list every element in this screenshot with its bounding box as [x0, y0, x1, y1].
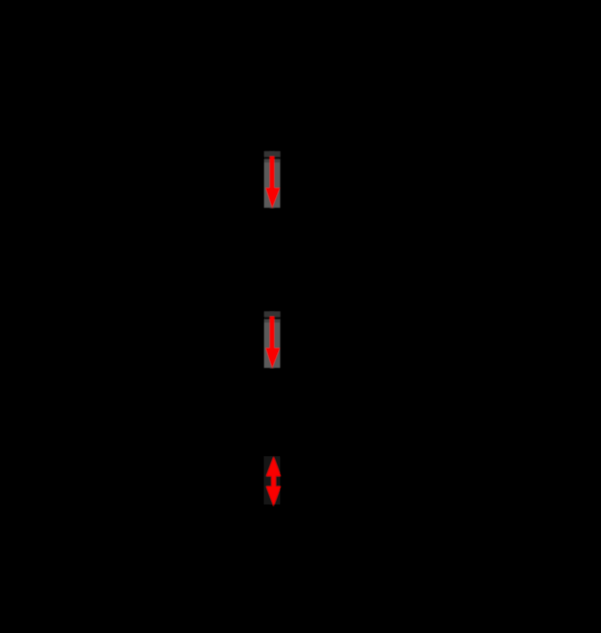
wire (vertical, R2 to lower component)	[270, 368, 274, 457]
resistor R2 body (gray)	[264, 311, 280, 368]
wire (vertical, bottom stub)	[270, 505, 274, 555]
wire (horizontal edge crossing R1 top)	[264, 157, 280, 159]
component body (dark rectangle behind voltage arrow)	[264, 456, 281, 504]
resistor R1 body (gray)	[264, 151, 280, 208]
wire (vertical, top stub into R1)	[270, 100, 274, 152]
wire (vertical, R1 to R2)	[270, 208, 274, 312]
current arrow I1 (red, downward, through R1)	[266, 156, 281, 208]
wire (horizontal edge crossing R2 top)	[264, 317, 280, 319]
current arrow I2 (red, downward, through R2)	[266, 316, 281, 368]
voltage arrow U (red, double-headed)	[266, 457, 281, 507]
